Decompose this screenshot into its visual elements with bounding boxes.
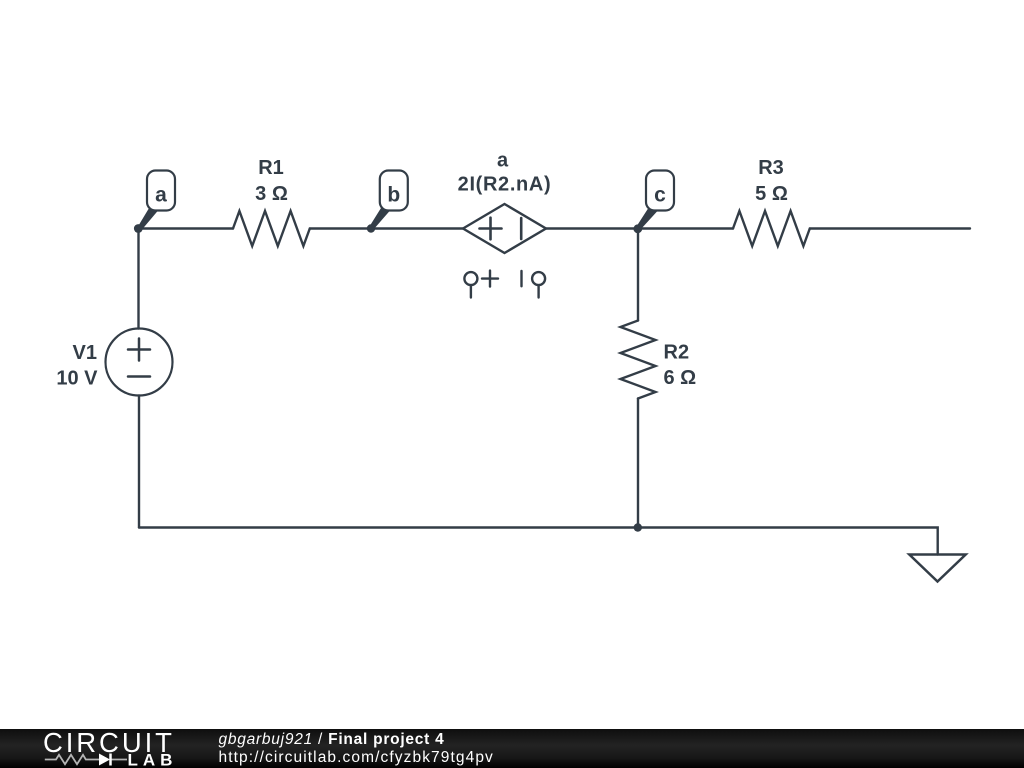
- svg-text:R2: R2: [664, 342, 690, 364]
- svg-text:c: c: [654, 184, 666, 207]
- svg-text:3 Ω: 3 Ω: [255, 183, 288, 205]
- svg-text:6 Ω: 6 Ω: [664, 367, 697, 389]
- svg-text:R1: R1: [258, 157, 284, 179]
- svg-text:R3: R3: [758, 157, 784, 179]
- svg-text:b: b: [387, 184, 400, 207]
- svg-text:2I(R2.nA): 2I(R2.nA): [458, 174, 552, 196]
- svg-text:a: a: [497, 150, 509, 172]
- svg-text:V1: V1: [73, 342, 97, 364]
- svg-text:5 Ω: 5 Ω: [755, 183, 788, 205]
- svg-text:LAB: LAB: [128, 751, 178, 768]
- svg-text:a: a: [155, 184, 167, 207]
- svg-text:10 V: 10 V: [56, 368, 98, 390]
